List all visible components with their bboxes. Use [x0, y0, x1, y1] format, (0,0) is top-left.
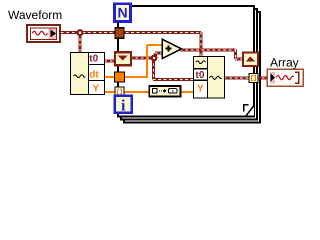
tunnel Y indexing (white with brackets) [115, 87, 124, 96]
junction dot node B [152, 56, 157, 61]
for loop folded corner [244, 105, 255, 117]
wire t0 to left shift register [105, 60, 118, 63]
add function U1 [162, 39, 182, 58]
label Array [270, 56, 299, 70]
bundle node (build waveform) [194, 57, 225, 99]
tunnel array output (cream with brackets) [249, 74, 258, 83]
svg-text:Waveform: Waveform [8, 8, 62, 22]
svg-text:Array: Array [270, 56, 299, 70]
N count terminal [115, 4, 131, 22]
right shift register [243, 53, 258, 67]
left shift register [115, 52, 131, 65]
svg-text:Y: Y [92, 84, 99, 95]
svg-text:t0: t0 [89, 54, 98, 65]
tunnel dt (solid orange) [115, 72, 125, 82]
index array node [149, 86, 180, 97]
array indicator terminal [267, 69, 303, 86]
label Waveform [8, 8, 62, 22]
for loop frame back sheet 2 [124, 12, 260, 123]
junction dot node A [78, 30, 83, 35]
wire waveform control to loop and down to bundle (dashed brown) [61, 32, 201, 57]
waveform control terminal [27, 25, 60, 42]
wire left shift register to junction to add and bundle t0 [130, 53, 194, 79]
svg-text:dt: dt [89, 70, 99, 81]
for loop frame back sheet 1 [121, 9, 257, 120]
svg-text:i: i [121, 97, 126, 114]
svg-text:N: N [117, 5, 127, 21]
svg-text:t0: t0 [196, 70, 205, 81]
wire dt orange to add upper input [105, 45, 164, 78]
svg-text:Y: Y [197, 84, 204, 95]
wire add output to right shift register [180, 50, 245, 59]
tunnel waveform input (solid brown) [115, 28, 124, 38]
wire Y orange to index array [105, 91, 151, 93]
wire index array to bundle Y input [180, 91, 194, 93]
i iteration terminal [115, 96, 132, 114]
wire bundle output to array indicator [224, 77, 267, 80]
unbundle node (get waveform components) [71, 53, 105, 95]
for loop N main frame [118, 6, 254, 117]
